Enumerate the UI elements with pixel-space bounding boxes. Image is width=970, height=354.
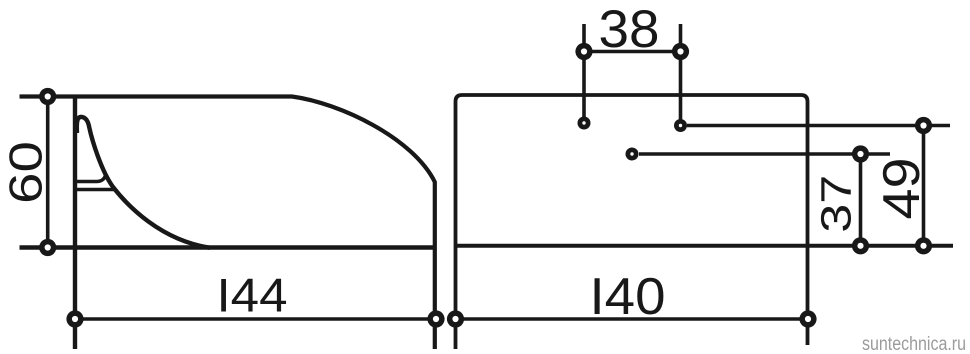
svg-text:suntechnica.ru: suntechnica.ru <box>862 334 966 354</box>
svg-text:I40: I40 <box>590 268 666 326</box>
svg-text:49: 49 <box>873 158 931 220</box>
svg-text:37: 37 <box>813 175 861 233</box>
svg-text:38: 38 <box>599 0 660 59</box>
svg-text:60: 60 <box>0 141 51 204</box>
svg-text:I44: I44 <box>217 270 288 323</box>
